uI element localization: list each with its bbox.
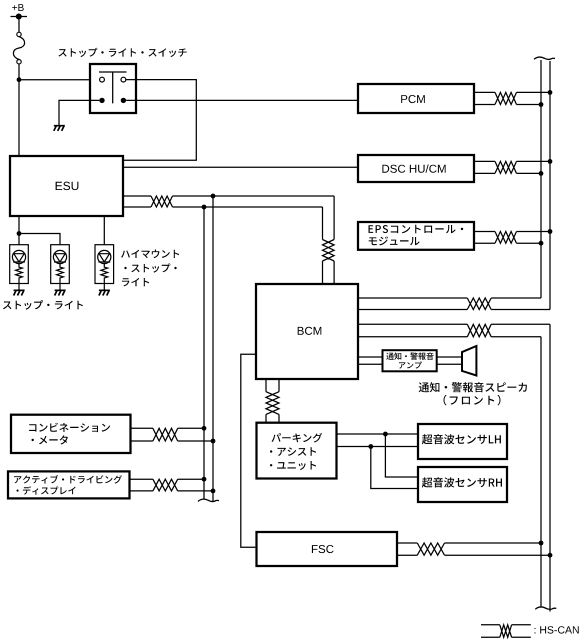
wire riser to BCM low bbox=[322, 207, 324, 240]
wire meter to bus low bbox=[178, 440, 213, 442]
wire FSC to bus high bbox=[445, 542, 542, 544]
node +B label bbox=[12, 4, 24, 11]
parking label line3 bbox=[270, 461, 316, 470]
wire EPS to bus low bbox=[517, 242, 542, 244]
junction PCM bus low bbox=[539, 102, 544, 107]
junction FSC bus high bbox=[539, 541, 544, 546]
switch contact NO right bbox=[121, 77, 126, 82]
twisted pair meter bbox=[153, 428, 178, 441]
wire parking to LH high bbox=[337, 433, 419, 435]
twisted pair BCM1 bbox=[467, 298, 491, 310]
combination meter box bbox=[11, 415, 131, 453]
wire ESU pair to BCM riser high bbox=[173, 195, 335, 197]
junction EPS bus high bbox=[548, 229, 553, 234]
label speaker line1 bbox=[419, 382, 527, 392]
wire BCM to FSC bbox=[241, 354, 256, 547]
wire ESU pair to BCM riser low bbox=[173, 206, 323, 208]
junction meter bus high bbox=[202, 426, 207, 431]
ESU box bbox=[10, 156, 123, 216]
wire FSC to bus low bbox=[445, 554, 551, 556]
wire display CAN high bbox=[130, 478, 153, 480]
twisted pair BCM riser bbox=[323, 240, 335, 262]
twisted pair display bbox=[153, 479, 178, 491]
twisted pair DSC bbox=[495, 161, 517, 173]
wire parking to LH low bbox=[337, 446, 419, 448]
switch contact NC right bbox=[121, 98, 126, 103]
wire BCM pair1 low bbox=[358, 309, 550, 311]
ground lamp 2 bbox=[55, 290, 66, 295]
label sensor RH bbox=[422, 477, 502, 487]
wire switch to ground bbox=[59, 100, 99, 125]
legend twisted pair symbol bbox=[481, 625, 531, 638]
switch contact NO left bbox=[100, 77, 105, 82]
stop lamp 3 LED symbol bbox=[98, 250, 111, 263]
wire +B to fuse bbox=[18, 19, 20, 32]
wire PCM CAN low bbox=[474, 104, 495, 106]
twisted pair FSC bbox=[417, 543, 444, 555]
wire EPS CAN high bbox=[474, 231, 495, 233]
junction DSC bus low bbox=[539, 171, 544, 176]
FSC label bbox=[312, 545, 334, 553]
left bus break bbox=[198, 499, 219, 501]
wire to stop light switch bbox=[19, 79, 100, 81]
parking assist unit box bbox=[257, 423, 337, 479]
junction EPS bus low bbox=[539, 241, 544, 246]
wire fuse to ESU bbox=[18, 64, 20, 156]
wire twist to BCM top B bbox=[333, 261, 335, 284]
ground lamp 1 bbox=[14, 290, 25, 295]
DSC HU/CM label bbox=[382, 164, 445, 172]
junction DSC bus high bbox=[548, 159, 553, 164]
junction left bus high bbox=[211, 194, 216, 199]
label sensor LH bbox=[422, 434, 501, 444]
switch SW1 box bbox=[90, 64, 136, 113]
wire riser to BCM high bbox=[333, 196, 335, 240]
wire switch to ESU bbox=[124, 80, 197, 161]
PCM label bbox=[401, 95, 425, 103]
stop lamp 2 LED symbol bbox=[53, 250, 66, 263]
wire BCM to amp A bbox=[358, 356, 383, 358]
junction left bus low bbox=[202, 205, 207, 210]
meter label line2 bbox=[32, 435, 68, 444]
switch contact NC left bbox=[99, 98, 104, 103]
HS-CAN bus upper right lane bbox=[549, 61, 551, 310]
ground switch bbox=[54, 126, 65, 131]
amp box bbox=[383, 350, 437, 371]
amp label line1 bbox=[386, 352, 433, 360]
twisted pair ESU bbox=[151, 196, 173, 207]
amp label line2 bbox=[399, 362, 422, 369]
wire BCM to amp B bbox=[358, 363, 383, 365]
wire PCM to bus high bbox=[517, 91, 551, 93]
junction lamp branch bbox=[17, 231, 22, 236]
FSC box bbox=[257, 532, 398, 566]
battery terminal +B bbox=[11, 16, 28, 18]
ESU label bbox=[56, 182, 79, 191]
wire EPS CAN low bbox=[474, 242, 495, 244]
wire BCM pair2 high bbox=[358, 323, 550, 325]
ground lamp 3 bbox=[99, 290, 110, 295]
wire ESU to high mount lamp bbox=[103, 216, 105, 250]
junction display bus low bbox=[211, 489, 216, 494]
junction meter bus low bbox=[211, 439, 216, 444]
legend HS-CAN label bbox=[535, 626, 579, 633]
wire display to bus low bbox=[178, 490, 213, 492]
bus break bottom bbox=[535, 607, 556, 609]
stop lamp 2 box bbox=[51, 245, 70, 284]
wire FSC CAN high bbox=[397, 542, 417, 544]
twisted pair parking bbox=[266, 392, 279, 415]
EPS label line1 bbox=[369, 225, 464, 234]
stop lamp 2 resistor bbox=[57, 264, 64, 291]
twisted pair BCM2 bbox=[467, 324, 491, 337]
parking label line1 bbox=[272, 433, 323, 443]
junction +B branch bbox=[17, 77, 22, 82]
wire twist to BCM top A bbox=[322, 261, 324, 284]
wire BCM bottom pair bbox=[266, 379, 279, 392]
junction display bus high bbox=[202, 477, 207, 482]
active driving display box bbox=[8, 471, 130, 498]
twisted pair PCM bbox=[495, 92, 517, 104]
junction sensor high bbox=[383, 432, 388, 437]
wire ESU to DSC bbox=[124, 166, 359, 168]
wire BCM pair1 high bbox=[358, 297, 541, 299]
stop lamp 3 box bbox=[95, 245, 114, 284]
wire ESU to stop lamps bbox=[18, 216, 20, 250]
HS-CAN bus lower right lane bbox=[549, 324, 551, 611]
wire meter CAN low bbox=[131, 440, 153, 442]
wire twist to parking unit bbox=[266, 414, 279, 422]
junction PCM bus high bbox=[548, 90, 553, 95]
stop lamp 1 resistor bbox=[16, 264, 23, 291]
wire EPS to bus high bbox=[517, 231, 551, 233]
display label line2 bbox=[17, 486, 76, 495]
ultrasonic sensor LH box bbox=[418, 424, 507, 459]
wire DSC CAN low bbox=[474, 172, 495, 174]
junction FSC bus low bbox=[548, 553, 553, 558]
bus break top bbox=[534, 57, 555, 59]
EPS control module box bbox=[358, 222, 474, 250]
label high mount line2 bbox=[124, 263, 176, 272]
fusible link bbox=[17, 32, 21, 36]
wire branch to lamp2 bbox=[19, 234, 60, 251]
wire DSC to bus low bbox=[517, 172, 542, 174]
DSC HU/CM box bbox=[358, 155, 474, 182]
ultrasonic sensor RH box bbox=[418, 467, 507, 502]
stop lamp 1 LED symbol bbox=[12, 250, 25, 263]
parking label line2 bbox=[270, 447, 316, 456]
wire amp to speaker B bbox=[437, 363, 462, 365]
wire FSC CAN low bbox=[397, 554, 417, 556]
meter label line1 bbox=[29, 423, 110, 432]
wire switch to PCM bbox=[126, 99, 358, 101]
display label line1 bbox=[14, 475, 122, 484]
junction sensor low bbox=[368, 444, 373, 449]
wire display to bus high bbox=[178, 478, 204, 480]
stop lamp 1 box bbox=[10, 245, 29, 284]
label stop light bbox=[3, 300, 83, 310]
wire ESU CAN high bbox=[124, 195, 152, 197]
wire to RH high bbox=[385, 434, 418, 477]
HS-CAN bus lower left lane bbox=[540, 337, 542, 607]
wire PCM CAN high bbox=[474, 91, 495, 93]
BCM label bbox=[298, 327, 322, 335]
wire PCM to bus low bbox=[517, 104, 542, 106]
HS-CAN bus upper left lane bbox=[540, 60, 542, 298]
wire meter CAN high bbox=[131, 427, 153, 429]
EPS label line2 bbox=[369, 237, 420, 246]
wire DSC CAN high bbox=[474, 160, 495, 162]
label high mount line1 bbox=[121, 250, 179, 259]
BCM box bbox=[256, 284, 358, 379]
wire amp to speaker A bbox=[437, 356, 462, 358]
label high mount line3 bbox=[122, 278, 149, 286]
left bus line A bbox=[212, 196, 214, 502]
PCM box bbox=[358, 84, 474, 113]
label stop light switch bbox=[58, 48, 186, 57]
wire ESU CAN low bbox=[124, 206, 152, 208]
twisted pair EPS bbox=[495, 232, 517, 244]
wire to RH low bbox=[371, 447, 418, 489]
speaker SP1 bbox=[462, 346, 476, 376]
wire display CAN low bbox=[130, 490, 153, 492]
label speaker line2 bbox=[444, 395, 501, 406]
wire meter to bus high bbox=[178, 427, 204, 429]
wire DSC to bus high bbox=[517, 160, 551, 162]
wire BCM pair2 low bbox=[358, 336, 541, 338]
switch actuator bar bbox=[99, 72, 127, 103]
left bus line B bbox=[203, 207, 205, 499]
stop lamp 3 resistor bbox=[101, 264, 108, 291]
